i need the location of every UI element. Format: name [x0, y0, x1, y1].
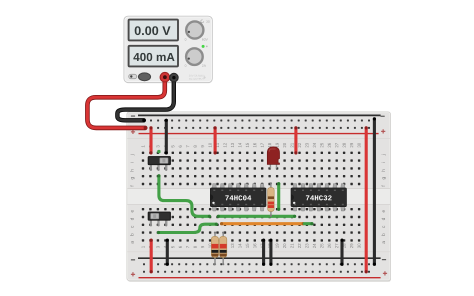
green wire c22 to c23	[304, 222, 312, 225]
black jumper a18 to - rail	[269, 240, 272, 264]
red jumper rail to j2	[149, 128, 152, 153]
top positive line	[139, 133, 379, 135]
red jumper top rail to bottom rail right	[365, 128, 368, 272]
psu small print	[189, 75, 206, 80]
IC U1 74HC04	[210, 184, 266, 211]
current display	[129, 46, 178, 67]
slide switch S1 (rows h2-h4)	[150, 164, 152, 170]
orange wire c11 to c22	[222, 222, 304, 225]
voltage display	[129, 20, 178, 41]
red terminal	[160, 72, 170, 82]
green wire f19 to e19	[277, 184, 280, 210]
green wire stub at j3	[157, 150, 160, 153]
current knob	[185, 48, 206, 67]
power LED	[202, 45, 208, 48]
run button	[138, 73, 150, 81]
resistor R1 (f18-d18)	[270, 183, 272, 215]
bottom positive line	[139, 277, 381, 279]
black jumper a4 to - rail	[166, 240, 169, 264]
rail holes	[143, 120, 370, 273]
black wire PSU - terminal to top - rail	[117, 79, 173, 121]
black jumper rail to j4	[165, 120, 168, 153]
black terminal	[170, 73, 179, 82]
row letters	[130, 154, 134, 157]
red jumper rail to j21	[294, 128, 297, 153]
green wire b3 to c10	[159, 224, 217, 232]
red jumper rail to j10	[214, 128, 217, 153]
black jumper top rail to bottom rail right	[373, 119, 376, 264]
green wire g3 to d10	[159, 176, 210, 217]
rail +/- labels	[131, 116, 135, 117]
rail separators	[127, 139, 390, 252]
bottom negative line	[138, 257, 381, 259]
black jumper a27 to - rail	[340, 240, 343, 264]
green wire d11 to d21	[218, 215, 294, 218]
red jumper a2 to + rail	[150, 240, 153, 272]
main grid holes	[142, 152, 360, 242]
resistor R2 (b10 to - rail)	[214, 233, 216, 265]
power switch pill	[129, 74, 137, 78]
IC U2 74HC32	[291, 184, 347, 211]
red wire PSU + terminal to top + rail	[87, 78, 164, 128]
black jumper a17 to - rail	[262, 240, 265, 264]
resistor R3 (b11 to - rail)	[222, 233, 224, 265]
LED D1 (red)	[267, 147, 279, 169]
slide switch S2 (rows c2-c4)	[150, 219, 152, 225]
power supply unit	[124, 16, 213, 83]
top negative line	[138, 114, 381, 116]
breadboard	[127, 112, 391, 282]
voltage knob	[185, 20, 210, 41]
column numbers	[142, 145, 145, 147]
center channel	[127, 189, 390, 205]
